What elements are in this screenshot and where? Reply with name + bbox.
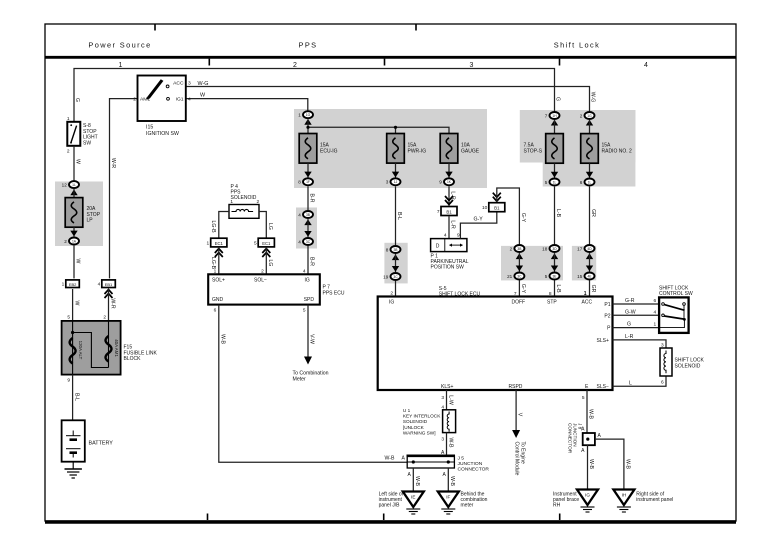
svg-text:5: 5 [254,240,257,246]
svg-text:8: 8 [386,247,389,252]
svg-text:EB1: EB1 [105,282,113,287]
wire 1H to STOP-S fuse [554,120,556,133]
wire label W-B to IH [625,459,631,470]
svg-text:B1: B1 [446,209,452,214]
connector 3C pin 19 col395 [383,273,400,280]
svg-text:8: 8 [298,180,301,185]
shift lock control SW label [659,286,693,298]
wire pair col519 [518,253,520,271]
wire W-R from ignition AM1 down to EB1 [110,99,138,279]
wire connector 1A to EB2 [73,246,75,279]
svg-text:B-R: B-R [309,194,315,203]
arrow down into 4E [586,266,593,272]
fusible link block label [124,345,158,363]
fuse 15A RADIO NO.2 [581,134,599,164]
svg-text:ACC: ACC [582,300,593,306]
arrow into EC1 left [215,249,223,258]
svg-text:IG: IG [305,277,310,283]
svg-text:B-L: B-L [74,393,80,401]
svg-text:Control Module: Control Module [514,442,520,476]
svg-text:SOLENOID: SOLENOID [231,195,257,201]
svg-text:U 1: U 1 [403,408,411,413]
arrow down into 3E [551,266,558,272]
connector 1J pin 3 [386,178,401,185]
wire label W-B to IE [414,476,420,487]
junction connector J8 label [568,423,583,454]
wire label LG-B below EC1 [210,257,216,270]
svg-text:SLS+: SLS+ [597,338,609,344]
wire pair col589 [589,253,591,271]
svg-text:D: D [436,243,440,249]
svg-text:L: L [629,380,632,386]
wire label LG-B [210,220,216,233]
connector 3B pin 8 col395 [386,246,401,253]
connector 1F pin 8 [298,178,313,185]
park/neutral position switch P1 box [431,239,467,252]
shift lock solenoid box [660,348,672,376]
svg-text:RADIO NO. 2: RADIO NO. 2 [602,148,633,154]
svg-text:3: 3 [441,436,444,442]
svg-text:5: 5 [545,180,548,185]
wire 4E to shift lock ECU pin 1 ACC [589,280,591,296]
wire label W-R [110,158,116,169]
arrow up into 3D [551,253,558,259]
wire connector 1L to fuse STOP [73,189,75,198]
svg-text:V: V [517,413,523,417]
wire label W-B E drop [588,409,594,420]
wire label G-Y vertical [520,213,526,223]
svg-text:9: 9 [67,378,70,384]
svg-text:Shift Lock: Shift Lock [554,41,600,50]
arrow up into 3B [304,219,311,225]
svg-text:GR: GR [590,285,596,293]
fuse 10A GAUGE [440,134,458,164]
svg-text:G: G [627,322,631,328]
svg-text:1: 1 [207,240,210,246]
gray panel right fuse row [520,110,636,187]
wire 1L pin6 to pair col589 [589,187,591,245]
wire label B-R [309,194,315,203]
svg-text:SHIFT LOCK ECU: SHIFT LOCK ECU [439,291,481,297]
arrow into connector 1K [445,172,452,178]
svg-text:G-R: G-R [625,298,635,304]
wire J5 to ground IE [412,468,414,492]
junction connector J5 dots [412,460,450,463]
fuse label 15A PWR-IG [408,142,427,154]
svg-text:10: 10 [482,205,488,211]
svg-text:1: 1 [298,113,301,118]
fuse 15A ECU-IG [299,134,317,164]
wire 1F to connector 3B [307,186,309,210]
connector EB1 pin 4 [98,280,116,288]
connector 1G pin 1 top of ECU-IG fuse [298,111,313,118]
battery plates [66,431,81,458]
wire 3C col519 to shift lock ECU pin 7 DOFF [518,280,520,296]
svg-text:12: 12 [62,182,68,187]
frame tick marks [155,24,560,520]
arrow into 1L pin5 [551,172,558,178]
wire 1J to connector 3B pair [395,186,397,245]
wire label W [74,301,80,306]
connector B1 pin 10 [482,203,505,212]
connector 1K pin 9 [439,178,454,185]
wire fusible link to battery [72,375,74,421]
connector EC1 right pin 5 [254,238,274,247]
svg-text:W-G: W-G [590,92,596,103]
junction dot fuse header at 308 [306,126,309,129]
shift lock solenoid label [675,358,705,370]
svg-text:3C: 3C [393,275,398,279]
svg-text:W-B: W-B [385,455,396,461]
svg-text:W-B: W-B [625,459,631,470]
svg-text:W-B: W-B [588,459,594,470]
svg-text:2: 2 [133,96,136,102]
svg-text:1: 1 [67,116,70,122]
svg-text:LG-B: LG-B [210,220,216,233]
wire PPS solenoid pin1 to EC1 left [219,212,229,239]
connector 3B pin 2 col519 [510,245,525,252]
arrow into EB1 from below [105,290,113,299]
svg-text:6: 6 [654,298,657,304]
svg-text:G-Y: G-Y [474,217,484,223]
svg-text:RSPD: RSPD [509,384,523,390]
svg-text:CONNECTOR: CONNECTOR [458,467,490,473]
svg-text:1G: 1G [306,113,311,117]
wire J8 right to IH drop [595,439,624,489]
svg-text:KEY INTERLOCK: KEY INTERLOCK [403,414,441,419]
fusible link 120A ALT symbol [70,338,76,364]
svg-text:L-R: L-R [625,334,634,340]
wire label B-L [396,212,402,220]
wire 1L pin5 to pair col554 [554,187,556,245]
svg-text:[UNLOCK: [UNLOCK [403,425,425,430]
PPS ECU P7 box [208,274,320,304]
svg-text:W-B: W-B [448,438,454,449]
wire 3C to shift lock ECU pin 2 [395,281,397,297]
svg-text:W: W [75,159,81,164]
arrow into connector 1A [70,231,77,237]
svg-text:GND: GND [212,297,224,303]
svg-text:6: 6 [661,380,664,386]
ground label instrument panel brace RH [553,492,579,509]
wire PPS solenoid pin2 to EC1 right [259,212,266,239]
wire W from ignition IG1 to ECU-IG fuse [186,99,308,114]
svg-text:SOL+: SOL+ [212,277,225,283]
fuse header line with branches [308,127,449,133]
svg-text:GR: GR [590,209,596,217]
fuse label 10A GAUGE [461,142,480,154]
fuse label 15A ECU-IG [320,142,338,154]
ground label behind the combination meter [461,492,488,509]
arrow into connector 1J [392,172,399,178]
wire label W-B on GND drop [220,334,226,345]
connector 3D pin 18 col554 [542,245,559,252]
battery ground [65,462,82,478]
wire park/neutral pin 9 up to B1 pin 10 [460,211,496,239]
wire label GR above ACC [590,285,596,293]
svg-text:L-R: L-R [450,220,456,229]
svg-text:G: G [555,97,561,101]
svg-text:4: 4 [298,239,301,244]
ignition switch contacts and lever [147,79,170,100]
wire label L-B [555,209,561,218]
label To Engine Control Module [514,442,526,476]
svg-text:IE: IE [411,495,415,500]
ground label left side of instrument panel [379,492,404,509]
svg-text:4: 4 [644,62,648,69]
wire label V [517,413,523,417]
svg-text:IG: IG [389,300,394,306]
svg-text:2: 2 [103,315,106,321]
svg-text:9: 9 [439,180,442,185]
svg-text:SPD: SPD [304,297,315,303]
arrow up into 3B col395 [392,254,399,260]
svg-text:5: 5 [545,274,548,279]
svg-text:W-G: W-G [198,81,209,87]
battery box [62,420,85,461]
wire key interlock to J5 [446,433,448,456]
wire EC1 left to PPS ECU pin 1 [218,247,220,274]
connector EC1 left pin 1 [207,238,227,247]
wire label LG [267,223,273,230]
connector 3C pin 4 [298,238,313,245]
fuse 20A STOP LP [65,198,83,228]
svg-text:G-Y: G-Y [520,213,526,223]
svg-text:5: 5 [582,395,585,401]
junction connector J5 box [407,456,456,468]
wire label GR [590,209,596,217]
arrow down into 3C col519 [516,266,523,272]
svg-text:W-R: W-R [110,298,116,309]
connector 3C pin 21 col519 [507,273,524,280]
svg-text:W-B: W-B [414,476,420,487]
gray panel 20A STOP fuse [55,182,103,247]
svg-text:J 5: J 5 [458,456,465,462]
svg-text:19: 19 [383,274,389,279]
wire 1G to RADIO fuse [589,120,591,133]
svg-text:SOLENOID: SOLENOID [403,419,428,424]
fuse label 7.5A STOP-S [524,142,543,154]
svg-text:LG-B: LG-B [210,257,216,270]
wire 3C to PPS ECU pin 4 [307,246,309,274]
wire label LG below EC1 [267,260,273,267]
wire pair col554 [554,253,556,271]
wire 1K to connector B1 pin 7 [448,186,450,205]
svg-text:IGNITION SW: IGNITION SW [146,131,179,137]
svg-text:3C: 3C [517,274,522,278]
svg-text:W-R: W-R [110,158,116,169]
svg-text:W: W [75,259,81,264]
fuse label 20A STOP LP [87,206,101,224]
ignition switch terminal labels [133,80,191,102]
svg-text:EC1: EC1 [215,241,224,246]
wire B1 to park/neutral sw pin 4 [448,216,450,238]
svg-text:W-B: W-B [588,409,594,420]
svg-text:3: 3 [386,180,389,185]
svg-text:P2: P2 [604,313,610,319]
svg-text:B1: B1 [494,206,500,211]
arrow into B1 pin10 [493,193,501,202]
svg-text:W-B: W-B [449,476,455,487]
svg-text:9: 9 [457,233,460,239]
ignition switch label I15 IGNITION SW [146,125,179,137]
arrow into 1G radio [586,120,593,126]
fusible link internal wiring [73,321,109,375]
junction dot fuse header at 395 [394,126,397,129]
wire G from stop light switch along top to STOP-S fuse [74,69,555,122]
svg-text:P1: P1 [604,302,610,308]
svg-text:6: 6 [214,308,217,314]
svg-text:BATTERY: BATTERY [89,441,114,447]
svg-text:1J: 1J [394,180,398,184]
svg-text:7: 7 [437,209,440,215]
svg-text:IH: IH [622,493,627,498]
svg-text:RH: RH [553,503,561,509]
svg-text:PPS: PPS [299,41,318,50]
svg-text:W-B: W-B [220,334,226,345]
svg-text:G-Y: G-Y [520,284,526,294]
svg-text:LG: LG [267,223,273,230]
fusible link 40A AM1 symbol [106,336,112,362]
fusible link 40A AM1 label [114,339,119,357]
wire E to junction connector J8 [586,390,588,433]
svg-text:IG1: IG1 [176,96,184,102]
wire P2 to control SW pin 4 G-W [613,314,660,316]
PPS ECU terminal labels [212,277,314,303]
arrow into 1L pin6 [586,172,593,178]
shift lock ECU label S-5 [439,286,447,292]
fusible link 120A ALT label [78,341,83,360]
wire label W-B to IG [588,459,594,470]
wire label W [75,259,81,264]
gray panel connector pair col 589 [572,246,596,281]
wire EC1 right to PPS ECU pin 2 [265,247,267,274]
svg-text:1L: 1L [72,183,76,187]
connector 1L pin 5 [545,179,560,186]
svg-text:GAUGE: GAUGE [461,148,480,154]
ignition switch I15 box [138,76,186,122]
wire B1 pin10 up over to drop at 519 [497,188,520,244]
junction connector J8 dot [586,438,589,441]
gray panel connector pairs col 519-554 [501,246,563,281]
svg-text:5: 5 [303,308,306,314]
svg-text:POSITION SW: POSITION SW [431,265,465,271]
fuse 15A PWR-IG [387,134,405,164]
label To Combination Meter [293,371,329,383]
PPS ECU label P 7 PPS ECU [323,285,345,297]
svg-text:15: 15 [577,274,583,279]
svg-text:I15: I15 [146,125,153,131]
wire label W-G right drop [590,92,596,103]
wire P1 to control SW pin 6 G-R [613,303,660,305]
park/neutral position switch label [431,254,469,271]
svg-text:KLS+: KLS+ [441,384,453,390]
svg-text:40A AM1: 40A AM1 [114,339,119,357]
stop light switch S-8 box [67,122,80,146]
arrow up into 3B col519 [516,253,523,259]
svg-text:3: 3 [188,80,191,86]
svg-text:BLOCK: BLOCK [124,356,142,362]
svg-text:18: 18 [542,246,548,251]
svg-text:5: 5 [67,315,70,321]
svg-text:Power Source: Power Source [88,41,151,50]
svg-text:1: 1 [654,322,657,328]
arrow into connector 1L [70,189,77,195]
svg-text:V-W: V-W [309,334,315,344]
arrow to engine control module [512,430,520,438]
svg-text:2: 2 [67,149,70,155]
wire SLS- to solenoid pin 6 L [613,376,667,386]
connector EB2 pin 1 [62,280,80,288]
svg-text:W: W [74,301,80,306]
fusible link block F15 box [62,321,121,375]
wire label L-R [450,220,456,229]
svg-text:PPS ECU: PPS ECU [323,290,345,296]
wire label L-W [448,395,454,405]
svg-text:120A ALT: 120A ALT [78,341,83,360]
wire 1G to fuse header line [307,119,309,133]
wire 3B to 3C col395 [395,254,397,272]
connector 1L pin 12 [62,181,79,188]
wire W-G from ignition ACC to RADIO fuse [186,87,590,115]
wire PWR-IG fuse to connector 1J [395,163,397,178]
svg-text:L-B: L-B [555,284,561,293]
wire P to control SW pin 1 G [613,327,660,329]
stop light switch label [83,123,98,146]
svg-text:B-R: B-R [309,257,315,266]
ground triangle IH [613,490,634,513]
ground label right side of instrument panel [636,492,673,504]
ground triangle IF [438,492,459,515]
svg-text:B-L: B-L [396,212,402,220]
svg-text:2: 2 [510,246,513,251]
wire STOP-S fuse to connector 1L [554,163,556,177]
wire fuse STOP to connector 1A [73,227,75,236]
svg-text:STOP-S: STOP-S [524,148,543,154]
wire RSPD to engine control module [515,390,517,431]
svg-text:17: 17 [577,246,583,251]
wire label G right drop [555,97,561,101]
svg-text:21: 21 [507,274,513,279]
svg-text:JUNCTION: JUNCTION [458,461,483,467]
wire J5 to ground IF [447,468,449,492]
wire label W-R [110,298,116,309]
fusible link junction dot [71,331,74,334]
svg-text:1L: 1L [553,180,557,184]
svg-text:WARNING SW]: WARNING SW] [403,430,436,435]
wire 3E to shift lock ECU pin 8 STP [554,280,556,296]
wire ECU-IG fuse to connector 1F [307,163,309,178]
svg-text:panel J/B: panel J/B [379,503,401,509]
connector 1L pin 6 [580,179,595,186]
svg-text:1: 1 [62,282,65,288]
wire label W [75,159,81,164]
wire label G-Y above DOFF [520,284,526,294]
wire EB2 to fusible link block pin 5 [72,289,74,321]
arrow up into 4D [586,253,593,259]
fuse 7.5A STOP-S [546,134,564,164]
wire label B-R [309,257,315,266]
fuse label 15A RADIO NO. 2 [602,142,633,154]
svg-text:SLS−: SLS− [597,384,609,390]
svg-text:SOL−: SOL− [254,277,267,283]
wire W stop light switch to connector 1L [73,146,75,181]
svg-text:L-B: L-B [555,209,561,218]
arrow into EC1 right [262,249,270,258]
svg-text:4: 4 [298,212,301,217]
svg-text:LG: LG [267,260,273,267]
svg-text:3D: 3D [552,247,557,251]
